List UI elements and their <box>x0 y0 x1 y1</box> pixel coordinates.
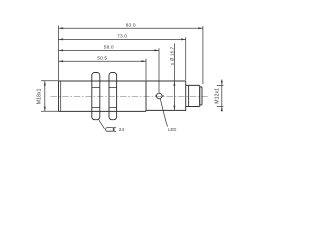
svg-text:LED: LED <box>168 127 177 132</box>
dimension dia 16.7 <box>173 43 175 110</box>
rear sleeve (dia 16.7) <box>146 81 186 111</box>
svg-text:≤ Ø 16.7: ≤ Ø 16.7 <box>169 46 174 65</box>
wrench size 24 callout <box>99 120 105 129</box>
dimension 73.0 <box>59 38 186 40</box>
connector tip <box>200 87 202 105</box>
hex nut 1 (lock nut) <box>92 73 100 120</box>
svg-text:83.0: 83.0 <box>126 22 136 28</box>
extension line left face <box>58 26 60 81</box>
connector body M12 <box>189 85 200 106</box>
svg-text:73.0: 73.0 <box>117 34 127 40</box>
dimension M18x1 <box>41 81 59 112</box>
dimension 83.0 <box>59 27 203 29</box>
svg-text:24: 24 <box>119 127 125 133</box>
extension line connector tip <box>202 26 204 84</box>
sensor barrel M18 body <box>59 81 186 111</box>
svg-text:M18x1: M18x1 <box>36 88 42 104</box>
extension line LED center <box>158 48 160 93</box>
svg-text:M12x1: M12x1 <box>215 88 221 104</box>
connector collar <box>186 85 189 106</box>
dimension M12x1 <box>217 80 224 112</box>
dimension 58.0 <box>59 49 160 51</box>
extension line sleeve step <box>145 59 147 81</box>
dimension 50.5 <box>59 60 147 62</box>
face chamfer <box>60 81 62 111</box>
centerline <box>51 95 210 97</box>
hex nut 2 (lock nut) <box>109 73 117 120</box>
LED leader line <box>160 99 167 127</box>
housing end face <box>185 81 187 111</box>
extension line housing end <box>185 37 187 80</box>
svg-text:50.5: 50.5 <box>97 55 107 61</box>
LED indicator circle <box>155 93 164 99</box>
svg-text:58.0: 58.0 <box>104 45 114 51</box>
